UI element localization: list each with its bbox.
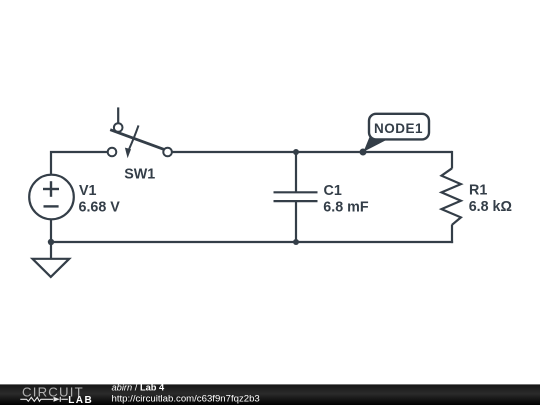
wire right vertical lower (from R1): [451, 225, 453, 244]
V1 value label: [79, 183, 121, 216]
svg-text:6.68 V: 6.68 V: [79, 200, 121, 216]
right terminal circle: [163, 148, 172, 157]
R1 value label: [469, 183, 512, 216]
svg-text:SW1: SW1: [124, 166, 155, 182]
C1 value label: [323, 183, 369, 216]
top terminal circle: [114, 123, 123, 132]
svg-text:V1: V1: [79, 183, 97, 199]
CircuitLab logo resistor-diode icon: [20, 397, 68, 402]
svg-text:abirn / Lab 4: abirn / Lab 4: [112, 383, 166, 393]
svg-text:6.8 mF: 6.8 mF: [323, 200, 369, 216]
node NODE1 box: [369, 114, 429, 140]
svg-text:R1: R1: [469, 183, 487, 199]
left terminal circle: [108, 148, 117, 157]
svg-text:6.8 kΩ: 6.8 kΩ: [469, 199, 512, 215]
node NODE1 flag tail: [364, 137, 393, 152]
ground: [33, 242, 70, 277]
junction dot (C1 top): [293, 149, 299, 155]
wire bottom rail: [51, 241, 453, 243]
junction dot (V1 bottom / ground): [48, 239, 54, 245]
wire right vertical upper (to R1): [451, 151, 453, 169]
node NODE1 dot: [360, 149, 367, 156]
CircuitLab logo diode triangle: [54, 397, 60, 402]
toggle arc arrow: [129, 125, 139, 150]
voltage source V1: [29, 175, 74, 242]
svg-text:C1: C1: [324, 183, 342, 199]
wire top-left (V1 top to switch left terminal): [51, 152, 108, 175]
top stub wire: [117, 107, 119, 123]
svg-text:NODE1: NODE1: [374, 121, 423, 136]
junction dot (C1 bottom): [293, 239, 299, 245]
switch SW1: [108, 107, 172, 158]
svg-text:http://circuitlab.com/c63f9n7f: http://circuitlab.com/c63f9n7fqz2b3: [112, 393, 260, 404]
wire switch right terminal to top-right corner: [172, 151, 452, 153]
svg-text:LAB: LAB: [68, 395, 93, 405]
capacitor C1: [274, 152, 318, 242]
blade: [110, 130, 164, 150]
resistor R1: [442, 168, 461, 225]
